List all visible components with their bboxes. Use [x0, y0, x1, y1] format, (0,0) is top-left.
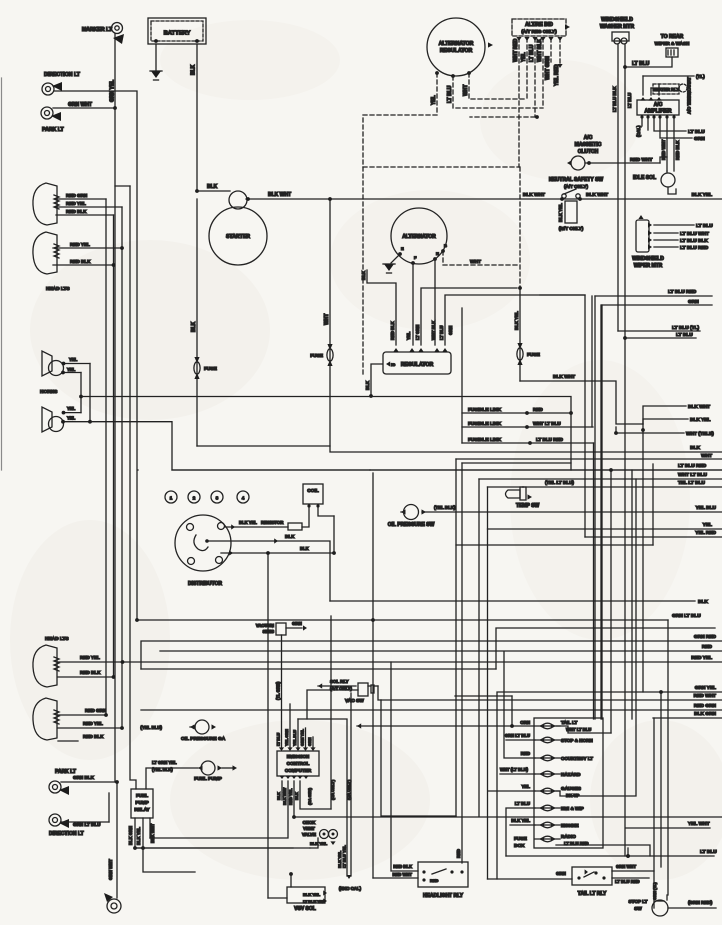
svg-text:ORN: ORN [520, 720, 530, 725]
marker light 2 [107, 899, 121, 913]
battery left pin [154, 39, 158, 43]
svg-text:LT BLU BLK: LT BLU BLK [680, 238, 708, 244]
svg-text:LT BLU YEL: LT BLU YEL [342, 845, 347, 868]
vac sw [358, 683, 368, 696]
svg-text:BLK: BLK [300, 546, 309, 551]
svg-text:LT BLU RED: LT BLU RED [536, 437, 564, 442]
wire bus y669 [141, 668, 496, 670]
svg-text:YEL: YEL [67, 406, 76, 411]
wire horn lower bus [90, 422, 722, 470]
svg-text:SENS: SENS [263, 629, 275, 634]
headlight relay box [418, 862, 468, 887]
wire orn feed [357, 723, 361, 728]
node junction marker park [113, 106, 117, 110]
wire battery to starter solenoid [197, 190, 230, 192]
svg-text:DIRECTION LT: DIRECTION LT [44, 72, 81, 78]
svg-text:WIPER MTR: WIPER MTR [634, 263, 663, 269]
wire ecc right loop [300, 781, 331, 809]
spark plug 3 [211, 491, 223, 503]
dashed wire ind pin a [518, 38, 520, 167]
node idle wire junction [641, 428, 645, 432]
wire regulator B [445, 295, 585, 537]
svg-text:BLK WHT: BLK WHT [283, 787, 287, 805]
svg-text:LT BLU: LT BLU [632, 61, 650, 67]
svg-text:BLK YEL: BLK YEL [239, 520, 257, 525]
svg-text:VSV SOL: VSV SOL [294, 906, 316, 912]
svg-text:RED GRN: RED GRN [66, 193, 88, 198]
wire v661 [660, 692, 662, 867]
wire BLK WHT bus starter to right [246, 198, 722, 200]
svg-text:TAIL LT: TAIL LT [561, 720, 578, 725]
svg-text:GRN RED: GRN RED [694, 634, 717, 640]
svg-text:RED YEL: RED YEL [83, 721, 103, 726]
alt-reg pin 1 [435, 71, 439, 75]
wire RED BLK h1 [56, 214, 114, 216]
wire RED BLK h3 [58, 676, 114, 678]
svg-text:YEL: YEL [67, 416, 76, 421]
svg-text:RED BLK: RED BLK [70, 259, 91, 264]
svg-text:WHT (LT BLU): WHT (LT BLU) [500, 767, 529, 772]
svg-text:LT BLU RED: LT BLU RED [678, 463, 707, 469]
svg-text:AMPLIFIER: AMPLIFIER [645, 109, 672, 115]
wire wiper pin2 [654, 232, 678, 234]
wire bus y470 label [172, 469, 722, 471]
svg-text:MAGNETIC: MAGNETIC [575, 142, 602, 148]
dashed wire ind pin d [542, 38, 544, 108]
svg-text:RED BLK: RED BLK [83, 734, 104, 739]
node horn junction [79, 395, 83, 399]
wire vac sens down [281, 635, 283, 748]
wire vac sw loop [307, 690, 358, 719]
svg-text:HEATER RLY: HEATER RLY [653, 87, 679, 92]
wire regulator IG to bus [371, 364, 382, 396]
svg-text:CLUTCH: CLUTCH [578, 149, 599, 155]
svg-text:HEADLIGHT RLY: HEADLIGHT RLY [423, 893, 464, 899]
wire distributor center BLK [207, 541, 330, 601]
regulator box [383, 352, 451, 374]
svg-text:GRN: GRN [694, 136, 705, 142]
wire coil to bus [318, 508, 334, 516]
node y879 [626, 854, 630, 858]
svg-text:(TEL LT BLU): (TEL LT BLU) [545, 480, 574, 485]
svg-text:FUSE: FUSE [204, 366, 218, 372]
wire WHT right bus [456, 458, 722, 460]
wire amp pin LT BLU [654, 119, 686, 131]
dashed wire ind pin e [550, 38, 552, 62]
svg-text:LT BLU: LT BLU [439, 325, 444, 340]
svg-text:NEUTRAL SAFETY SW: NEUTRAL SAFETY SW [549, 177, 604, 183]
fusible link 3 [462, 442, 530, 444]
wire WHT fuse mid [329, 199, 331, 446]
headlamp 1a [33, 183, 57, 225]
svg-text:GRN: GRN [556, 871, 566, 876]
fuse box box [534, 718, 603, 848]
svg-text:A/C: A/C [654, 102, 663, 108]
wire bus y628 [496, 628, 715, 669]
svg-text:BLK: BLK [191, 64, 197, 75]
wiper motor pins [648, 222, 652, 227]
dashed wire alt-reg pin2 [453, 76, 543, 108]
svg-text:WHT BLK: WHT BLK [537, 39, 543, 62]
svg-text:WHT: WHT [463, 85, 469, 96]
svg-text:HEAD LTS: HEAD LTS [45, 636, 69, 642]
fuse stop horn [539, 737, 544, 742]
svg-text:RED YEL: RED YEL [70, 242, 90, 247]
park light PARK LT [41, 107, 53, 119]
regulator left pin [386, 361, 390, 366]
wire LT BLU TL right [642, 76, 644, 95]
terminal arrow right of alternator regulator [488, 42, 493, 47]
starter motor [209, 207, 267, 265]
a/c amplifier top pin arrows [640, 97, 645, 101]
wire distributor branch down [267, 553, 269, 898]
headlamp 1b [33, 232, 57, 274]
wire left bus 3 [121, 207, 123, 728]
fuse engine [539, 822, 544, 827]
wire wiper pin1 [654, 224, 694, 226]
wire relay top left [146, 768, 198, 789]
svg-text:GRN BLK: GRN BLK [73, 775, 95, 780]
wire LT BLU YEL branch [618, 330, 700, 332]
wire horns bus right [81, 397, 571, 464]
wire v479 [478, 479, 480, 816]
wire y817 right [294, 816, 722, 818]
svg-text:STARTER: STARTER [226, 234, 250, 240]
svg-text:RED: RED [521, 751, 530, 756]
wire GRN right top [602, 304, 712, 306]
svg-text:YEL BLU: YEL BLU [696, 505, 717, 511]
svg-text:LT BLU: LT BLU [277, 733, 281, 746]
svg-text:WHT RED: WHT RED [513, 38, 519, 62]
svg-text:RED WHT: RED WHT [694, 693, 716, 699]
wire amp pin GRN [660, 119, 692, 138]
wire v370 top [369, 469, 371, 471]
fuse gauges [539, 788, 544, 793]
svg-text:FUSIBLE LINK: FUSIBLE LINK [468, 421, 502, 427]
spark plug 2 [188, 491, 200, 503]
a/c amplifier box [637, 100, 679, 115]
wire horn2 YEL b [63, 421, 90, 423]
node washer branch [623, 336, 627, 340]
svg-text:WIPER & WASH: WIPER & WASH [655, 41, 690, 46]
svg-text:RADIO: RADIO [561, 834, 576, 839]
svg-text:RED BLK: RED BLK [66, 209, 87, 214]
svg-text:FUEL: FUEL [136, 793, 148, 798]
svg-text:BLK: BLK [295, 792, 299, 800]
svg-text:IG: IG [391, 362, 395, 367]
wire left bus jog [115, 185, 130, 187]
wire RED YEL h4 [58, 727, 122, 729]
svg-text:YEL: YEL [67, 367, 76, 372]
wire v373 to relay [373, 877, 418, 879]
oil pressure gauge [190, 724, 195, 729]
svg-text:RED YEL: RED YEL [66, 201, 86, 206]
svg-text:YEL BLU: YEL BLU [293, 730, 297, 746]
svg-text:YEL: YEL [69, 357, 78, 362]
wire LT BLU RED right top [595, 295, 712, 297]
wire relay pin BLK YEL [143, 818, 195, 872]
svg-text:VAC SW: VAC SW [345, 698, 364, 704]
svg-text:ALTERNATOR: ALTERNATOR [402, 234, 436, 240]
svg-text:(A/T REG ONLY): (A/T REG ONLY) [521, 29, 557, 34]
svg-text:VENT: VENT [303, 826, 315, 831]
wire battery to ground [155, 44, 157, 72]
svg-text:(EXC CAL): (EXC CAL) [339, 886, 362, 891]
wire ecc pin down3 [293, 781, 295, 817]
m/t only connector [565, 201, 577, 223]
wire LT BLU BLK washer [617, 44, 619, 331]
fusible link 1 [462, 412, 527, 414]
wire ecc ring pair [350, 693, 352, 876]
svg-text:LT BLU: LT BLU [627, 93, 632, 108]
svg-text:BLK YEL: BLK YEL [136, 827, 141, 845]
wire v488 [487, 487, 489, 529]
wire fuse box feed left [488, 878, 573, 880]
wire horn2 YEL a [63, 412, 81, 414]
vsv sol [289, 872, 293, 876]
svg-text:BLK WHT: BLK WHT [523, 192, 545, 198]
wire BLK battery down [196, 44, 198, 191]
svg-text:BLK YEL: BLK YEL [690, 417, 711, 423]
svg-text:WHT: WHT [470, 259, 481, 265]
wire alternator ground [391, 254, 400, 263]
svg-text:RED BLK: RED BLK [390, 321, 395, 340]
svg-text:PARK LT: PARK LT [42, 127, 65, 133]
dashed wire ind pin c [534, 38, 536, 117]
svg-text:GRN (TL): GRN (TL) [652, 882, 657, 900]
wire BLK YEL distributor to resistor [225, 526, 288, 528]
svg-text:BLK: BLK [365, 380, 370, 390]
wire WHT LT BLU right [479, 478, 722, 480]
wire TEL LT BLU right [488, 486, 722, 488]
svg-text:LT BLU: LT BLU [700, 849, 717, 855]
wire wiper pin3 [654, 239, 678, 241]
headlight relay contacts [422, 870, 425, 873]
ground at marker light [113, 34, 124, 44]
wire rear wiper to washer node [625, 57, 672, 67]
svg-text:IDLE SOL: IDLE SOL [633, 175, 656, 181]
wire amp to idle sol 1 [666, 117, 668, 171]
svg-text:WHT LT BLU: WHT LT BLU [533, 421, 561, 426]
fuse hazard [539, 771, 544, 776]
wire bus y620 [137, 619, 668, 621]
node regulator bus junction [369, 394, 373, 398]
dashed wire alternator B WHT [443, 251, 520, 265]
svg-text:BLK WHT: BLK WHT [688, 404, 710, 410]
svg-text:RED: RED [456, 849, 461, 858]
wire fuse BLK YEL [519, 288, 521, 381]
svg-text:LT BLU (TL): LT BLU (TL) [672, 325, 699, 331]
svg-text:HAZARD: HAZARD [561, 772, 581, 777]
alternator pin E [398, 252, 402, 256]
page edge artifact [1, 78, 3, 470]
fuse mid FUSE [327, 344, 332, 350]
svg-text:FUSE: FUSE [527, 352, 541, 358]
neutral safety switch contacts [562, 194, 566, 198]
svg-text:SW: SW [634, 906, 642, 911]
wire horn1 YEL a [63, 363, 90, 365]
wire LT BLU branch [625, 337, 696, 339]
svg-text:TO REAR: TO REAR [661, 34, 684, 40]
wire GRN WHT park light [53, 107, 115, 109]
svg-text:LT BLU: LT BLU [447, 85, 453, 103]
svg-text:LT GRN: LT GRN [415, 325, 420, 340]
svg-text:LT BLU YEL: LT BLU YEL [303, 900, 325, 904]
wire v592 [591, 296, 593, 427]
node washer junction [623, 65, 627, 69]
fuse emi wip [539, 805, 544, 810]
svg-text:RED: RED [430, 878, 439, 883]
wire regulator L to fuse node [421, 288, 517, 345]
svg-text:LT BLU: LT BLU [688, 129, 705, 135]
svg-text:RED BLK: RED BLK [393, 864, 412, 869]
wire RED GRN h1 [56, 198, 106, 200]
fuel pump relay box [131, 789, 153, 818]
wire fusible link feed [461, 308, 463, 443]
svg-text:LT BLU: LT BLU [515, 801, 530, 806]
wire vsv feed [268, 897, 287, 899]
svg-text:PUMP: PUMP [135, 800, 148, 805]
wire BLK YEL right label [643, 419, 688, 424]
svg-text:TAIL LT RLY: TAIL LT RLY [578, 891, 607, 897]
temp switch TEMP SW [506, 490, 521, 498]
svg-text:BLK YEL: BLK YEL [558, 203, 563, 222]
fuse courtesy [539, 755, 544, 760]
wire v331 [330, 616, 332, 809]
wire fuse to BLK WHT right [520, 381, 643, 430]
alternator [391, 208, 447, 264]
fuse radio [539, 836, 544, 841]
fuse right FUSE [517, 343, 522, 349]
wire left bus 5 [137, 469, 139, 471]
svg-text:RED BLK: RED BLK [675, 140, 680, 160]
alternator regulator U-ALT-REG [427, 18, 485, 76]
svg-text:COIL: COIL [307, 488, 319, 494]
svg-text:WHT: WHT [701, 453, 712, 459]
fusible link 2 [462, 426, 527, 428]
svg-text:(TEL BLK): (TEL BLK) [434, 505, 456, 510]
coil box COIL [303, 484, 323, 504]
headlamp 2a [33, 645, 57, 687]
wire left bus 2 [114, 108, 116, 782]
svg-text:GRN: GRN [308, 737, 312, 746]
svg-text:TEMP SW: TEMP SW [516, 503, 540, 509]
regulator top pin arrows [393, 348, 398, 352]
svg-text:DISTRIBUTOR: DISTRIBUTOR [188, 581, 222, 587]
heater relay dashed box [653, 84, 679, 94]
wire left bus 4 [130, 186, 136, 789]
node fuse mid top [328, 197, 332, 201]
wire grn lt blu top [667, 620, 669, 895]
svg-text:GRN LT BLU: GRN LT BLU [505, 733, 530, 738]
svg-text:RED WHT: RED WHT [630, 157, 652, 163]
svg-text:BLK YEL: BLK YEL [692, 192, 713, 198]
wire v462 RED [461, 463, 463, 863]
wire ecc pin short [289, 704, 291, 748]
svg-text:BLK GRN: BLK GRN [128, 826, 133, 845]
wire GRN BLK park2 [61, 781, 117, 783]
svg-text:LT BLU: LT BLU [529, 44, 535, 62]
svg-text:(YEL BLK): (YEL BLK) [152, 767, 173, 772]
svg-text:LT BLU: LT BLU [676, 332, 693, 338]
svg-text:WHT LT BLU: WHT LT BLU [678, 472, 707, 478]
wire GRN YEL marker to junction [114, 34, 116, 108]
wire y718 right [653, 717, 722, 719]
svg-text:BLK: BLK [361, 270, 366, 280]
svg-text:(CA ONLY): (CA ONLY) [346, 779, 351, 800]
wire alternator N to regulator [434, 259, 436, 345]
battery [148, 18, 206, 44]
svg-text:GRN LT BLU: GRN LT BLU [672, 613, 701, 619]
headlamp 2b [33, 698, 57, 740]
svg-text:GRN WHT: GRN WHT [108, 859, 113, 880]
node bus dot [135, 618, 139, 622]
wire amp pin down b [647, 117, 649, 130]
wire wiper pin4 [654, 246, 678, 248]
alt-reg pin 3 [467, 71, 471, 75]
svg-text:BLK WHT: BLK WHT [586, 192, 608, 198]
svg-text:GRN: GRN [292, 621, 302, 626]
wire y856 LT BLU [506, 855, 714, 857]
svg-text:STOP LT: STOP LT [629, 899, 648, 904]
svg-text:YEL: YEL [406, 331, 411, 340]
dashed wire vertical to fuse [519, 167, 521, 288]
node battery wire junction [195, 189, 199, 193]
distributor [175, 515, 231, 571]
marker light MARKER LT [112, 23, 123, 34]
node fuse top junction [518, 286, 522, 290]
alt ind pin arrows [516, 37, 521, 41]
wire gauges right [556, 479, 636, 796]
dashed wire left vertical [362, 167, 364, 374]
alt ind box ALT/RE IND A/T REG ONLY [512, 19, 566, 36]
svg-text:RELAY: RELAY [134, 807, 149, 812]
svg-text:VACUUM: VACUUM [256, 623, 275, 628]
wire tail relay right LT BLU RED [612, 877, 649, 879]
svg-text:RED YEL: RED YEL [289, 788, 293, 805]
wire BLK WHT right label [643, 406, 686, 424]
wire LT BLU washer [624, 44, 626, 856]
svg-text:STOP & HORN: STOP & HORN [561, 738, 593, 743]
svg-text:BLK: BLK [690, 445, 700, 451]
battery right pin [195, 39, 199, 43]
svg-text:(TL GRN): (TL GRN) [276, 681, 281, 700]
svg-text:RED: RED [702, 644, 713, 650]
wire radio right [556, 845, 650, 856]
svg-text:TEL LT BLU: TEL LT BLU [678, 480, 706, 486]
wire WHT TELE right [616, 432, 684, 434]
svg-text:RED YEL: RED YEL [691, 655, 712, 661]
svg-text:BLK: BLK [285, 534, 295, 539]
svg-text:(M/T ONLY): (M/T ONLY) [559, 226, 584, 231]
wire from direction light [54, 91, 137, 620]
svg-text:A/C THERMOSTAT: A/C THERMOSTAT [687, 77, 692, 114]
wire v593 [593, 443, 595, 719]
svg-text:LT BLU BLK: LT BLU BLK [612, 86, 617, 112]
svg-text:RED BLK: RED BLK [80, 670, 101, 675]
svg-text:WASHER MTR: WASHER MTR [600, 24, 635, 30]
svg-text:ALT/RE IND: ALT/RE IND [525, 22, 553, 28]
wire BLK fuse left [196, 199, 198, 446]
svg-text:HORNS: HORNS [40, 389, 58, 395]
svg-text:LT BLU RED: LT BLU RED [615, 879, 640, 884]
wire fuse left to right bus [197, 446, 722, 452]
vacuum sensor box [276, 623, 286, 635]
svg-text:BLK: BLK [277, 792, 281, 800]
svg-text:RED GRN: RED GRN [694, 703, 717, 709]
svg-text:WHT BLK: WHT BLK [431, 321, 436, 340]
wire idle sol feed [540, 294, 585, 296]
